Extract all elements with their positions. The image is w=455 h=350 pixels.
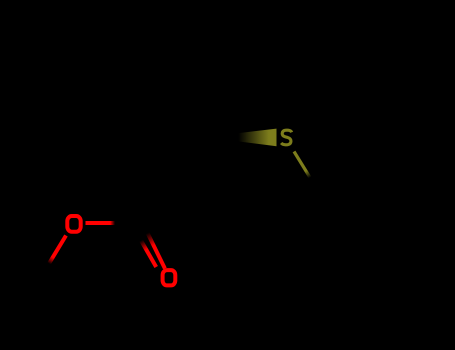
node O ester label (67, 216, 80, 232)
wedge bond C2-S (213, 129, 277, 147)
wire O(ester)-C(carbonyl) bond (86, 221, 116, 225)
wire cyclopropane C2-C3 bond (black on black) (161, 134, 213, 137)
node O carbonyl label (163, 270, 176, 285)
wire C(carbonyl)-C1 ring bond (black on black) (141, 196, 166, 223)
wire cyclopropane C1-C3 bond (black on black) (161, 134, 166, 196)
node S label (281, 130, 292, 145)
wire C=O double bond main line (148, 233, 165, 269)
wire O(ester)-CH3 bond (49, 236, 66, 264)
wire S-phenyl bond (294, 152, 310, 178)
wire C=O double bond second line (141, 241, 156, 268)
wire phenyl ring (black on black) (311, 180, 417, 289)
wire cyclopropane C1-C2 bond (black on black) (166, 137, 213, 196)
